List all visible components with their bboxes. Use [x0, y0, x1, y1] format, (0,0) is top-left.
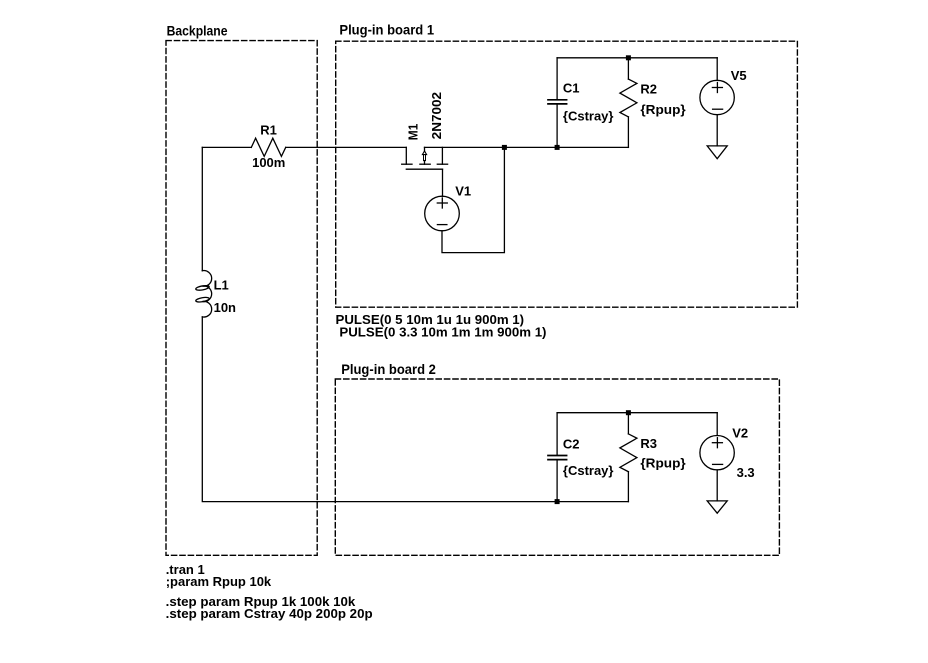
svg-text:R3: R3 — [640, 436, 657, 451]
svg-text:{Cstray}: {Cstray} — [563, 109, 614, 124]
svg-text:100m: 100m — [252, 155, 285, 170]
svg-text:Plug-in board 1: Plug-in board 1 — [339, 23, 434, 38]
svg-text:R2: R2 — [640, 81, 657, 96]
svg-text:{Cstray}: {Cstray} — [563, 463, 614, 478]
svg-text:C1: C1 — [563, 80, 580, 95]
svg-text:.step param Cstray 40p 200p 20: .step param Cstray 40p 200p 20p — [166, 606, 373, 621]
svg-text:Backplane: Backplane — [167, 23, 228, 38]
svg-text:V2: V2 — [732, 426, 748, 441]
svg-text:Plug-in board 2: Plug-in board 2 — [341, 362, 436, 377]
svg-text:L1: L1 — [214, 278, 229, 293]
svg-text:;param Rpup 10k: ;param Rpup 10k — [166, 574, 272, 589]
svg-text:10n: 10n — [214, 300, 236, 315]
svg-text:M1: M1 — [405, 124, 420, 141]
svg-text:{Rpup}: {Rpup} — [640, 456, 685, 471]
svg-text:R1: R1 — [260, 123, 277, 138]
svg-text:V1: V1 — [455, 184, 471, 199]
svg-text:3.3: 3.3 — [737, 465, 755, 480]
svg-text:V5: V5 — [731, 68, 747, 83]
svg-text:{Rpup}: {Rpup} — [640, 102, 685, 117]
svg-text:C2: C2 — [563, 437, 580, 452]
svg-text:2N7002: 2N7002 — [429, 92, 444, 139]
svg-text:PULSE(0 3.3 10m 1m 1m 900m 1): PULSE(0 3.3 10m 1m 1m 900m 1) — [339, 325, 546, 340]
